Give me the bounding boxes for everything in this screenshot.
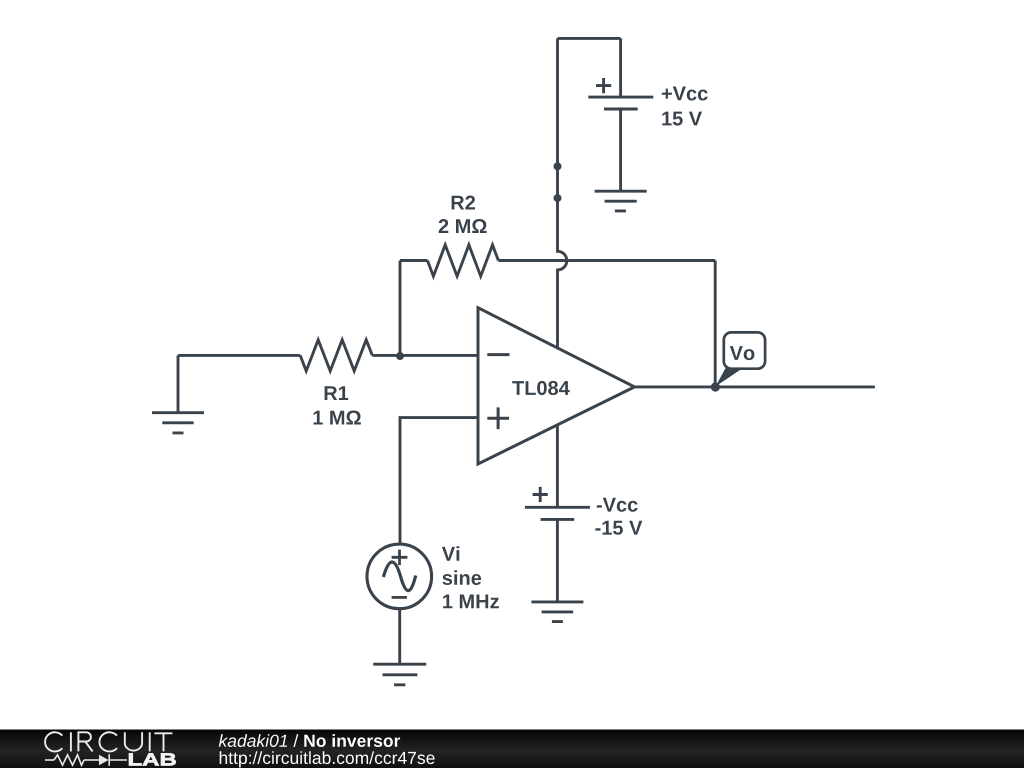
text No inversor [304, 734, 400, 747]
resistor R2 zigzag [428, 245, 499, 276]
ground G2 (input) [152, 413, 204, 433]
text 15 V [662, 112, 702, 126]
op-amp U1 plus sign [487, 407, 509, 429]
text -15 V [595, 521, 642, 535]
text url [220, 751, 435, 767]
text slash [293, 734, 298, 747]
resistor R1 zigzag [300, 340, 372, 371]
wire output [635, 385, 875, 388]
wire feedback horizontal right segment [498, 259, 715, 262]
source V3 minus sign [392, 596, 407, 599]
battery V1 plus sign [596, 78, 611, 93]
text 1 MHz [443, 595, 499, 609]
wire left ground lead [177, 355, 180, 412]
source V3 plus sign [392, 550, 408, 566]
logo letter U [125, 732, 142, 750]
text Vi [442, 546, 459, 561]
wire +Vcc rail vertical with hop over feedback [558, 38, 567, 348]
voltage source V3 Vi circle [367, 544, 432, 609]
source V3 sine wave [383, 562, 415, 591]
logo resistor-diode art [45, 754, 127, 766]
op-amp U1 minus sign [487, 353, 509, 356]
wire feedback horizontal left segment [400, 259, 428, 262]
wire battery V1 top lead [619, 38, 622, 97]
text 2 MΩ [439, 219, 487, 233]
text LAB [129, 753, 176, 765]
wire feedback right leg [714, 261, 717, 387]
wire R1 to inverting input [372, 354, 478, 357]
text R2 [452, 196, 475, 210]
wire non-inverting input [400, 418, 478, 544]
node dot C inverting junction [396, 352, 404, 360]
text Vo [730, 346, 755, 360]
battery V1 +Vcc short plate [604, 108, 638, 111]
wire feedback left leg [399, 261, 402, 357]
wire battery V1 to ground [619, 109, 622, 191]
text +Vcc [662, 87, 708, 101]
op-amp U1 triangle [478, 308, 635, 464]
ground G1 (under +Vcc battery) [595, 191, 647, 211]
ground G4 (under Vi) [373, 664, 426, 685]
wire Vi to ground [398, 609, 401, 665]
logo CIRCUIT letters (drawn) [45, 732, 172, 751]
battery V1 +Vcc long plate [588, 96, 653, 99]
battery V2 -Vcc long plate [525, 506, 590, 509]
text sine [443, 570, 482, 585]
wire battery V2 to ground [556, 519, 559, 602]
wire input left tail [178, 354, 300, 357]
logo letter R [78, 732, 92, 751]
logo letter I [149, 732, 151, 751]
text -Vcc [597, 498, 638, 512]
battery V2 -Vcc short plate [541, 518, 575, 521]
wire op-amp V- pin to -Vcc battery [556, 425, 559, 507]
node dot B on +Vcc rail [554, 194, 562, 202]
battery V2 plus sign [533, 487, 548, 502]
logo letter T [154, 733, 172, 751]
node dot D output junction [711, 382, 720, 391]
logo letter C [45, 732, 62, 751]
wire top horizontal V+ to battery [558, 37, 621, 40]
flag Vo box [724, 332, 765, 368]
logo letter I [70, 732, 72, 751]
ground G3 (under -Vcc battery) [531, 602, 583, 622]
logo letter C [99, 732, 117, 751]
text 1 MΩ [314, 411, 361, 425]
node dot A on +Vcc rail [554, 162, 562, 170]
flag Vo pointer [716, 368, 744, 387]
text kadaki01 [219, 734, 287, 747]
text R1 [325, 386, 349, 400]
text TL084 [512, 381, 570, 395]
